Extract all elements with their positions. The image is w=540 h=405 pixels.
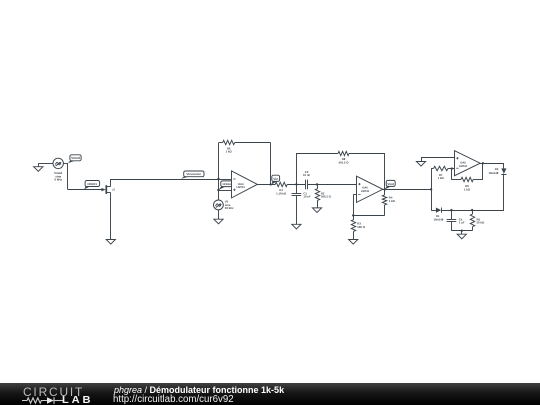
svg-text:50 kHz: 50 kHz (225, 206, 234, 210)
node (270, 183, 272, 185)
capacitor C2 (303, 170, 311, 189)
ground (312, 208, 321, 213)
svg-text:LM741: LM741 (361, 190, 370, 193)
resistor R2 (315, 189, 331, 201)
footer bar (0, 383, 540, 405)
resistor R9 (461, 177, 473, 191)
svg-text:5 kHz: 5 kHz (54, 178, 62, 182)
CircuitLab logo (23, 387, 84, 399)
svg-text:1N4148: 1N4148 (433, 218, 443, 222)
wire (431, 168, 433, 170)
svg-text:10 nF: 10 nF (303, 195, 311, 199)
ground (416, 162, 425, 167)
node (482, 162, 484, 164)
wire (461, 231, 463, 235)
svg-text:Vout: Vout (387, 182, 394, 186)
node (430, 188, 432, 190)
wire (353, 194, 356, 196)
ground (349, 240, 358, 245)
resistor R7 (434, 166, 448, 180)
op-amp OA5 (455, 151, 481, 176)
wire (257, 184, 275, 186)
wire (451, 222, 453, 231)
node (384, 188, 386, 190)
wire (308, 184, 357, 186)
wire (296, 184, 298, 193)
wire (218, 210, 220, 219)
ground (214, 219, 223, 224)
svg-text:NODE2: NODE2 (223, 183, 232, 186)
resistor R6 (223, 140, 235, 153)
diode D1 (433, 208, 443, 222)
svg-text:10 nF: 10 nF (303, 173, 311, 177)
resistor R4 (382, 195, 395, 205)
svg-text:401.2 Ω: 401.2 Ω (338, 161, 349, 165)
node (352, 214, 354, 216)
svg-text:1N4148: 1N4148 (488, 171, 498, 175)
ground (292, 224, 301, 229)
wire (296, 153, 338, 155)
op-amp OA6 (357, 176, 383, 202)
node A (295, 183, 297, 185)
wire (353, 231, 355, 239)
svg-text:1.19 kΩ: 1.19 kΩ (276, 191, 287, 195)
wire (384, 205, 386, 216)
wire (287, 184, 305, 186)
source V1 Vmod (53, 158, 63, 181)
node (450, 209, 452, 211)
svg-text:LM741: LM741 (237, 186, 246, 189)
svg-text:Vmod: Vmod (71, 156, 80, 160)
wire (218, 143, 220, 179)
resistor R3 (351, 220, 365, 232)
wire (451, 230, 472, 232)
capacitor C4 (447, 217, 465, 224)
node (217, 178, 219, 180)
diode D3 (488, 167, 506, 175)
svg-text:1 kΩ: 1 kΩ (464, 187, 471, 191)
wire (218, 179, 220, 200)
svg-text:560 Ω: 560 Ω (357, 225, 365, 229)
wire (431, 169, 433, 190)
wire (480, 163, 504, 165)
wire (421, 157, 454, 159)
wire (353, 215, 385, 217)
wire (473, 179, 483, 181)
wire (384, 153, 386, 189)
ground (457, 234, 466, 239)
svg-text:20 kΩ: 20 kΩ (477, 221, 485, 225)
svg-text:Vtransistor: Vtransistor (186, 172, 202, 176)
wire (349, 153, 385, 155)
flag NODE1 (84, 181, 99, 190)
svg-text:1 kΩ: 1 kΩ (389, 199, 396, 203)
wire (353, 215, 355, 219)
wire (111, 179, 219, 181)
wire (383, 189, 431, 191)
wire (38, 163, 53, 165)
svg-text:Vin: Vin (273, 177, 278, 181)
svg-text:306.2 Ω: 306.2 Ω (321, 195, 332, 199)
svg-text:1 uF: 1 uF (459, 221, 465, 225)
ground (106, 240, 115, 245)
wire (384, 189, 386, 195)
wire (63, 163, 68, 165)
wire (442, 210, 504, 212)
source V5 (214, 200, 235, 211)
wire (472, 210, 474, 214)
wire (296, 196, 298, 224)
resistor R1 (275, 182, 287, 195)
flag Vin (272, 175, 280, 184)
wire (482, 163, 484, 180)
flag Vtransistor (181, 171, 204, 179)
wire (451, 169, 453, 180)
wire (219, 179, 232, 181)
wire (431, 210, 436, 212)
flag Vout (385, 180, 395, 189)
resistor R8 (338, 151, 349, 164)
ground (34, 163, 43, 171)
flag Vmod (68, 155, 81, 163)
resistor R5 (470, 214, 485, 227)
flag NODE2 (219, 181, 234, 190)
wire (353, 195, 355, 216)
wire (235, 142, 271, 144)
wire (219, 190, 232, 192)
svg-text:NODE1: NODE1 (87, 182, 97, 186)
wire (110, 196, 112, 240)
node (217, 189, 219, 191)
transistor J1 (101, 179, 115, 196)
wire (68, 189, 102, 191)
svg-text:1 kΩ: 1 kΩ (226, 150, 233, 154)
wire (317, 184, 319, 188)
wire (67, 163, 69, 189)
node (461, 230, 463, 232)
node (471, 209, 473, 211)
op-amp OA4 (232, 171, 258, 198)
wire (472, 227, 474, 231)
wire (503, 174, 505, 211)
wire (431, 189, 433, 210)
wire (451, 210, 453, 219)
wire (270, 143, 272, 185)
svg-text:J1: J1 (112, 189, 115, 192)
wire (421, 158, 423, 162)
node B (316, 183, 318, 185)
wire (448, 168, 455, 170)
wire (503, 163, 505, 168)
wire (296, 153, 298, 184)
svg-text:LM741: LM741 (459, 165, 468, 168)
node (451, 167, 453, 169)
capacitor C1 (292, 191, 311, 198)
wire (317, 200, 319, 208)
svg-text:1 kΩ: 1 kΩ (438, 176, 445, 180)
wire (452, 179, 461, 181)
wire (219, 142, 223, 144)
